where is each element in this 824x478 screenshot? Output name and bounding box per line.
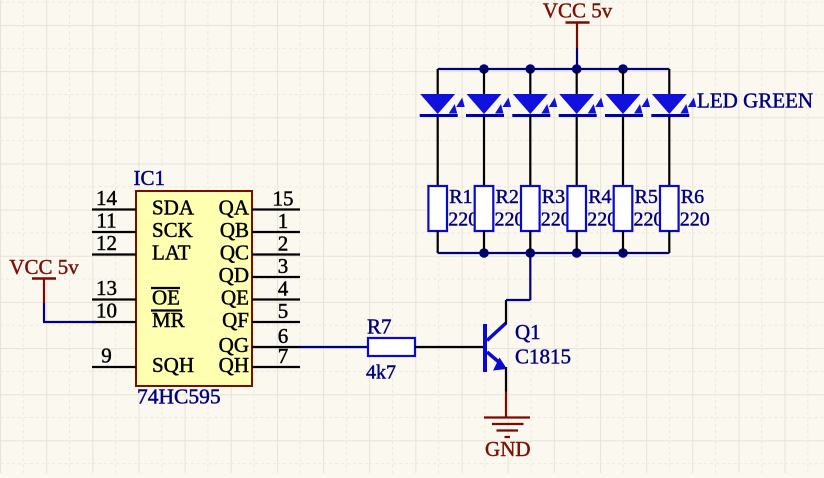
svg-text:13: 13 — [96, 276, 117, 300]
svg-text:5: 5 — [278, 299, 289, 323]
svg-text:14: 14 — [96, 186, 118, 210]
svg-text:74HC595: 74HC595 — [137, 385, 221, 409]
svg-text:R4: R4 — [588, 186, 611, 208]
svg-text:IC1: IC1 — [134, 166, 166, 190]
svg-text:7: 7 — [278, 344, 289, 368]
svg-text:15: 15 — [273, 187, 294, 211]
svg-text:VCC 5v: VCC 5v — [543, 0, 613, 23]
svg-text:QH: QH — [219, 353, 249, 377]
svg-text:4k7: 4k7 — [366, 362, 396, 384]
svg-text:220: 220 — [680, 209, 710, 231]
svg-text:QA: QA — [219, 196, 250, 220]
svg-text:QD: QD — [219, 263, 249, 287]
svg-text:12: 12 — [96, 231, 117, 255]
svg-text:SQH: SQH — [152, 353, 194, 377]
svg-text:R1: R1 — [449, 186, 472, 208]
svg-text:3: 3 — [278, 254, 289, 278]
svg-text:2: 2 — [278, 232, 289, 256]
svg-text:R5: R5 — [635, 186, 658, 208]
svg-text:Q1: Q1 — [515, 320, 541, 344]
svg-text:C1815: C1815 — [515, 345, 571, 369]
svg-text:QB: QB — [220, 218, 249, 242]
svg-text:SCK: SCK — [152, 218, 193, 242]
svg-text:LAT: LAT — [152, 241, 191, 265]
svg-text:GND: GND — [485, 437, 531, 461]
svg-text:11: 11 — [96, 209, 116, 233]
svg-text:QC: QC — [220, 241, 249, 265]
svg-text:220: 220 — [541, 209, 571, 231]
svg-text:R6: R6 — [681, 186, 704, 208]
svg-text:SDA: SDA — [152, 196, 195, 220]
svg-text:LED GREEN: LED GREEN — [697, 89, 813, 113]
svg-text:R7: R7 — [367, 315, 392, 339]
svg-text:9: 9 — [101, 344, 112, 368]
svg-text:10: 10 — [96, 299, 117, 323]
svg-text:1: 1 — [278, 209, 289, 233]
svg-text:R3: R3 — [542, 186, 565, 208]
svg-text:R2: R2 — [496, 186, 519, 208]
svg-text:4: 4 — [278, 277, 289, 301]
svg-text:QE: QE — [221, 286, 249, 310]
svg-text:QF: QF — [222, 308, 249, 332]
svg-text:VCC 5v: VCC 5v — [9, 255, 79, 279]
